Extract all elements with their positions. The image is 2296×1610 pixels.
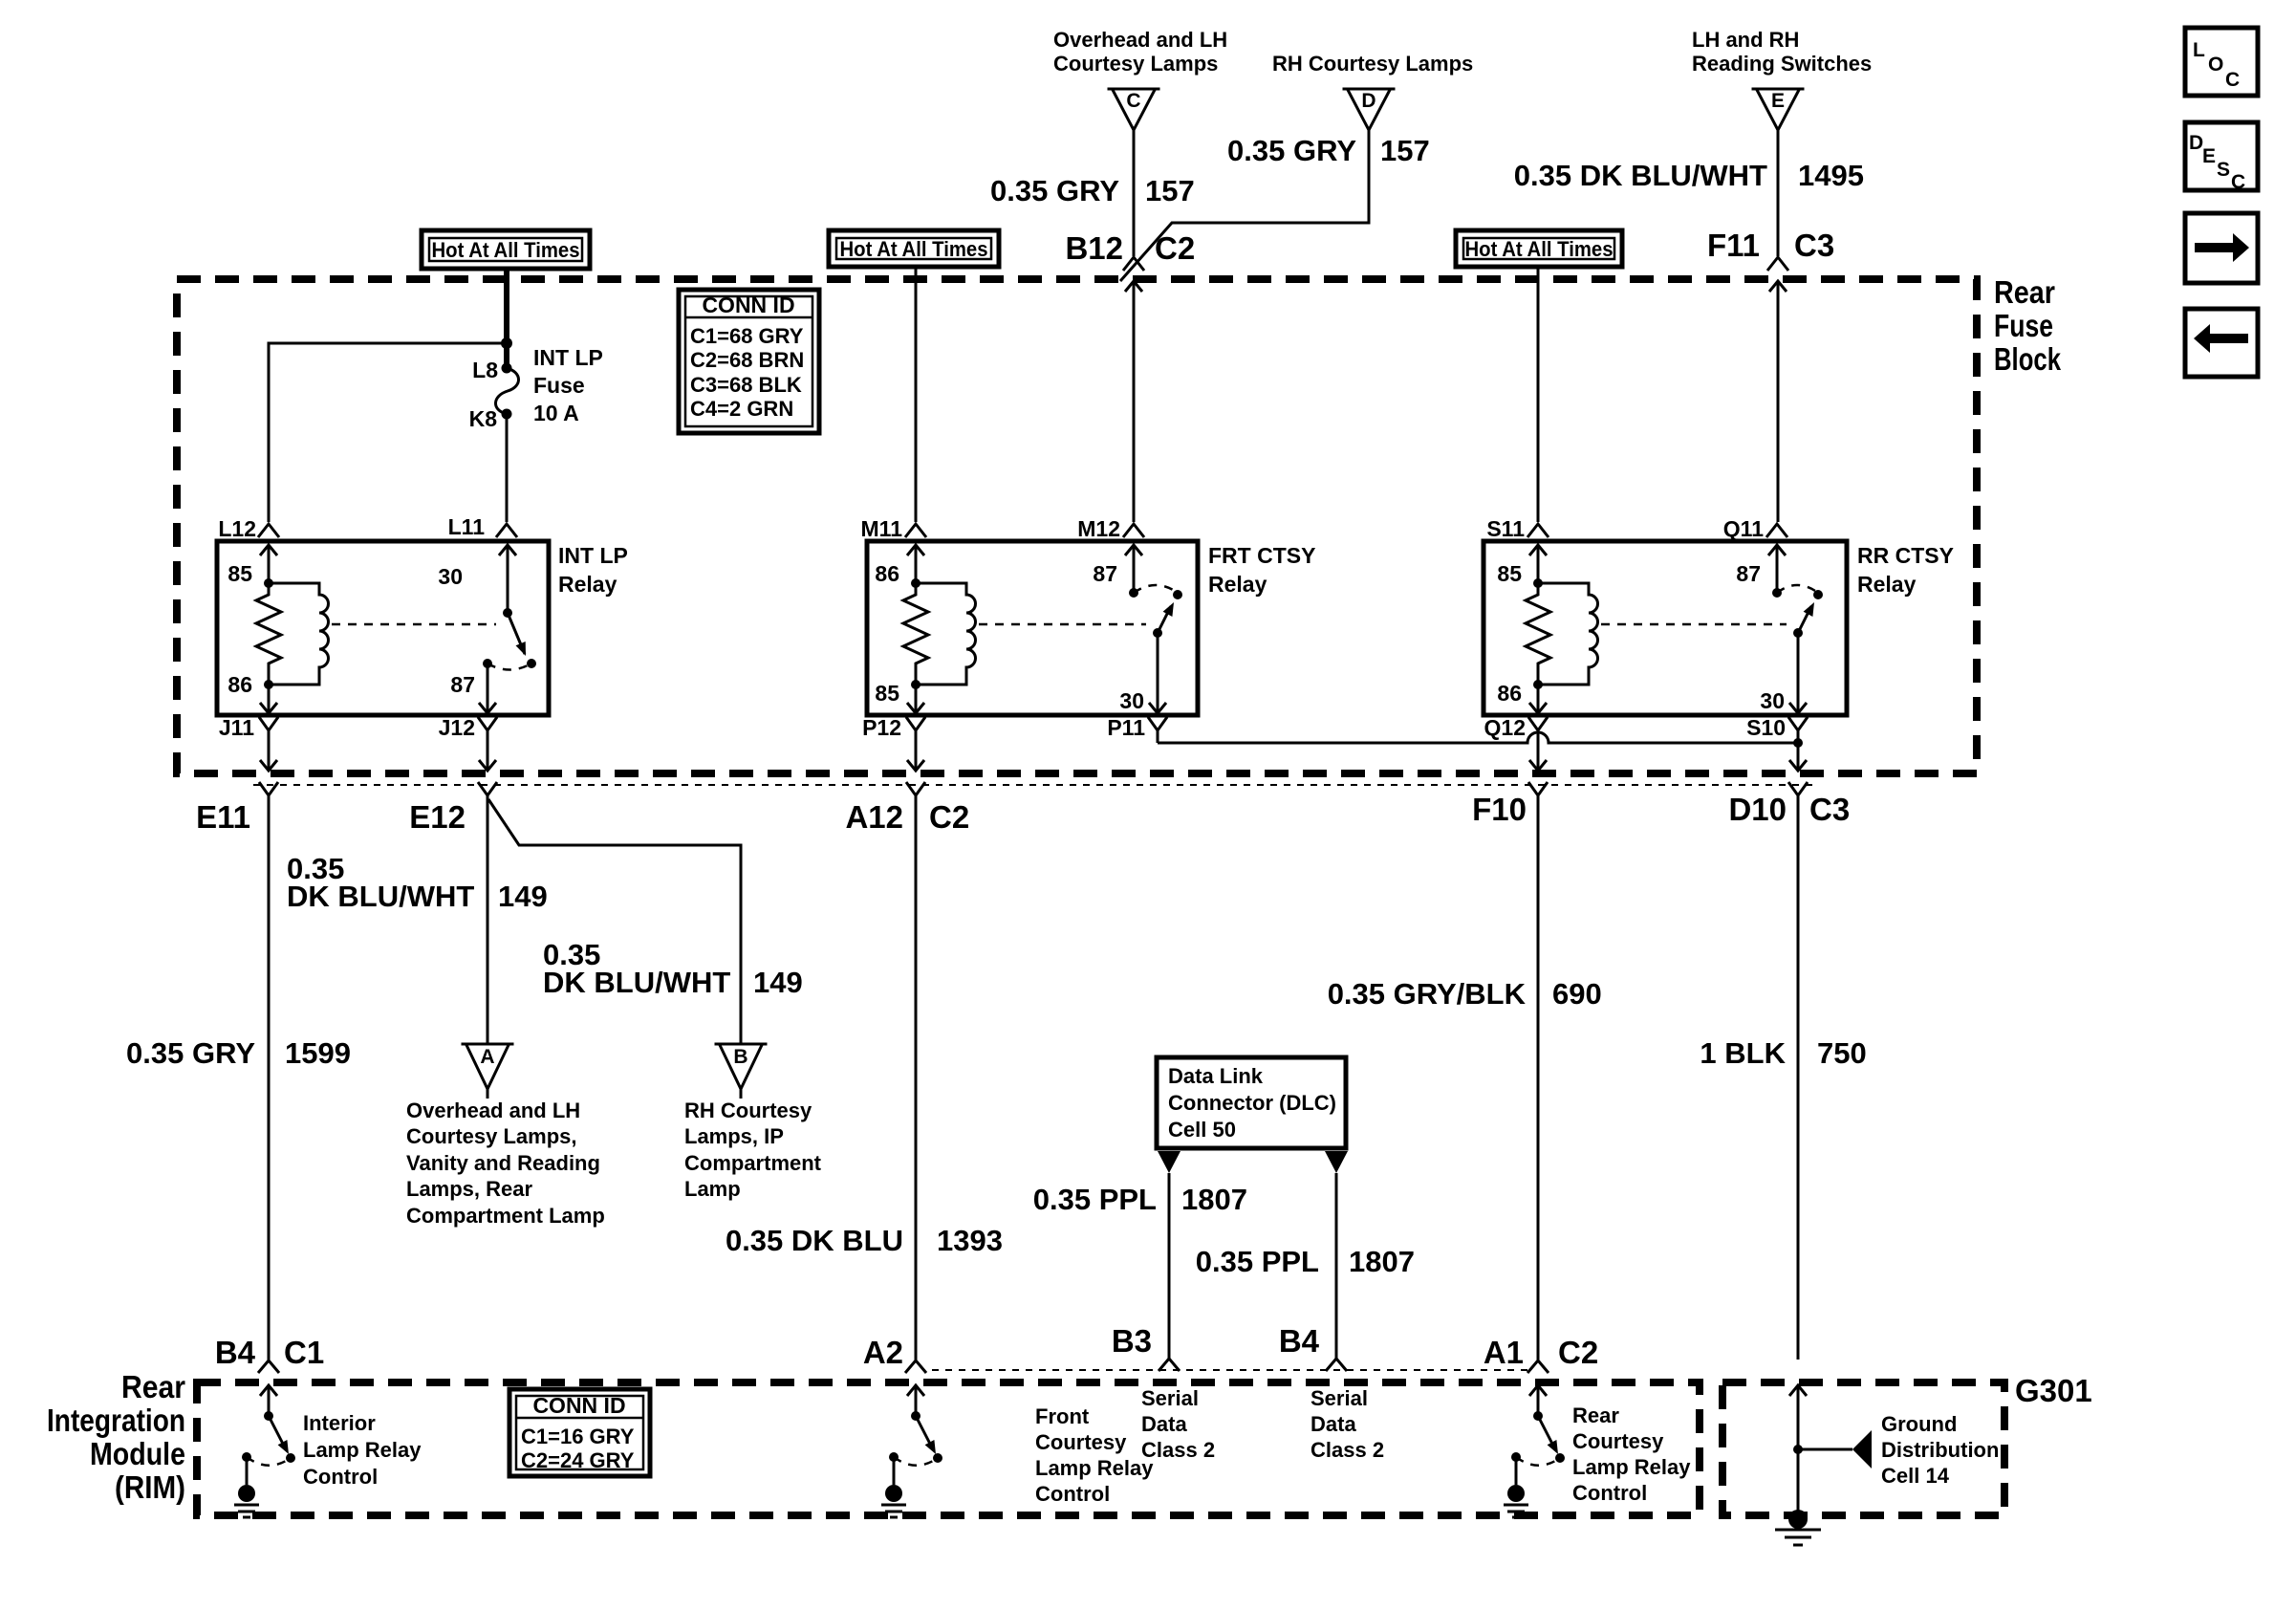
svg-text:Relay: Relay: [1857, 572, 1917, 597]
svg-text:(RIM): (RIM): [115, 1469, 185, 1505]
svg-text:Integration: Integration: [47, 1403, 185, 1438]
svg-text:Serial: Serial: [1141, 1386, 1199, 1410]
U3 coil winding: [1538, 583, 1598, 685]
label 0.35 GRY 157 circuit C: [990, 174, 1195, 207]
label 0.35 DK BLU/WHT 149 circuit A: [287, 852, 548, 913]
svg-text:LH and RH: LH and RH: [1692, 28, 1799, 52]
svg-text:B4: B4: [1279, 1323, 1320, 1359]
svg-text:Reading Switches: Reading Switches: [1692, 52, 1872, 76]
svg-text:S: S: [2217, 159, 2230, 181]
svg-text:C: C: [1126, 90, 1140, 112]
svg-text:INT LP: INT LP: [558, 543, 628, 568]
wire E12 to triangle A: [487, 795, 489, 1044]
svg-text:INT LP: INT LP: [533, 345, 603, 370]
svg-text:Vanity and Reading: Vanity and Reading: [406, 1151, 600, 1175]
node D10 C3: [1728, 782, 1850, 827]
node A12 C2: [845, 782, 969, 835]
DLC pin B4 triangle: [1325, 1151, 1348, 1359]
U3 pin 87 terminal arrow: [1736, 545, 1786, 598]
svg-text:86: 86: [1497, 681, 1522, 706]
svg-text:157: 157: [1145, 174, 1195, 207]
svg-text:85: 85: [227, 561, 252, 586]
label 0.35 GRY 157 circuit D: [1227, 134, 1430, 167]
svg-text:DK BLU/WHT: DK BLU/WHT: [543, 966, 730, 999]
U3 actuation dashed link: [1601, 623, 1787, 626]
svg-text:10 A: 10 A: [533, 401, 579, 425]
svg-text:Lamp Relay: Lamp Relay: [303, 1438, 422, 1462]
svg-text:C3: C3: [1809, 792, 1850, 827]
svg-text:B12: B12: [1065, 230, 1123, 266]
node B4 DLC: [1279, 1323, 1347, 1371]
svg-text:Courtesy Lamps: Courtesy Lamps: [1053, 52, 1218, 76]
svg-text:C2=68 BRN: C2=68 BRN: [690, 348, 804, 372]
svg-text:1807: 1807: [1181, 1183, 1247, 1216]
svg-text:RR CTSY: RR CTSY: [1857, 543, 1954, 568]
svg-text:M11: M11: [861, 516, 903, 541]
svg-text:C1: C1: [284, 1335, 324, 1370]
svg-text:CONN ID: CONN ID: [532, 1393, 625, 1418]
triangle B description: [684, 1099, 822, 1201]
svg-text:Distribution: Distribution: [1881, 1438, 1999, 1462]
svg-text:Lamp Relay: Lamp Relay: [1572, 1455, 1691, 1479]
label Serial Data Class 2 (B4): [1310, 1386, 1384, 1462]
svg-text:D10: D10: [1728, 792, 1787, 827]
svg-text:Interior: Interior: [303, 1411, 376, 1435]
svg-text:L: L: [2193, 39, 2205, 61]
connector triangle E LH and RH Reading Switches: [1692, 28, 1872, 130]
wire branch to L12: [269, 343, 507, 522]
wire F10 to A1: [1537, 795, 1540, 1360]
svg-text:Compartment: Compartment: [684, 1151, 822, 1175]
svg-text:CONN ID: CONN ID: [702, 293, 794, 317]
svg-text:Overhead and LH: Overhead and LH: [406, 1099, 580, 1122]
svg-text:D: D: [2189, 132, 2203, 154]
svg-text:Lamp Relay: Lamp Relay: [1035, 1456, 1154, 1480]
svg-text:Data: Data: [1141, 1412, 1187, 1436]
svg-text:C1=16 GRY: C1=16 GRY: [521, 1425, 635, 1448]
wire triangle D to B12: [1120, 130, 1369, 281]
svg-text:30: 30: [1760, 688, 1785, 713]
svg-text:B: B: [733, 1046, 747, 1068]
connector triangle B: [715, 1044, 768, 1099]
node Q12: [1484, 715, 1548, 771]
svg-text:C2: C2: [1155, 230, 1195, 266]
svg-text:E: E: [2202, 145, 2216, 167]
svg-text:S10: S10: [1746, 715, 1786, 740]
svg-text:0.35 GRY: 0.35 GRY: [1227, 134, 1356, 167]
node P12: [862, 715, 925, 771]
svg-text:A12: A12: [845, 799, 903, 835]
svg-text:Serial: Serial: [1310, 1386, 1368, 1410]
node B4 C1: [215, 1335, 324, 1373]
svg-text:0.35 PPL: 0.35 PPL: [1033, 1183, 1157, 1216]
U1 pin 30 terminal arrow: [438, 545, 516, 618]
svg-text:Lamps, IP: Lamps, IP: [684, 1124, 784, 1148]
svg-text:C1=68 GRY: C1=68 GRY: [690, 324, 804, 348]
svg-text:Courtesy: Courtesy: [1572, 1429, 1664, 1453]
svg-text:Relay: Relay: [558, 572, 617, 597]
wire Hot2 feed to M11: [915, 267, 918, 522]
svg-text:1807: 1807: [1349, 1245, 1415, 1278]
svg-text:C4=2 GRN: C4=2 GRN: [690, 397, 793, 421]
svg-text:C: C: [2231, 171, 2245, 193]
svg-text:A2: A2: [863, 1335, 903, 1370]
U1 pin 87 contact: [450, 659, 531, 713]
U2 switch arm and contact: [1134, 585, 1182, 638]
svg-text:FRT CTSY: FRT CTSY: [1208, 543, 1315, 568]
svg-text:0.35 GRY: 0.35 GRY: [126, 1036, 255, 1070]
node J11: [219, 715, 278, 771]
node F10: [1472, 782, 1548, 827]
label 1 BLK 750: [1700, 1036, 1866, 1070]
svg-text:Lamp: Lamp: [684, 1177, 741, 1201]
svg-text:Rear: Rear: [1572, 1403, 1619, 1427]
node B12 C2: [1065, 230, 1195, 522]
label 0.35 DK BLU/WHT 149 circuit B: [543, 938, 803, 999]
node L11: [448, 514, 517, 539]
svg-text:L12: L12: [218, 516, 256, 541]
node A1 C2: [1484, 1335, 1598, 1373]
U3 switch arm and contact: [1777, 585, 1823, 638]
svg-text:K8: K8: [469, 406, 498, 431]
connector triangle C Overhead and LH Courtesy Lamps: [1053, 28, 1227, 130]
node M11: [861, 516, 926, 541]
svg-text:85: 85: [1497, 561, 1522, 586]
svg-text:RH Courtesy Lamps: RH Courtesy Lamps: [1272, 52, 1473, 76]
svg-text:149: 149: [498, 880, 548, 913]
svg-text:Overhead and LH: Overhead and LH: [1053, 28, 1227, 52]
svg-text:Ground: Ground: [1881, 1412, 1957, 1436]
svg-text:1393: 1393: [937, 1224, 1003, 1257]
node A2: [863, 1335, 926, 1373]
svg-text:Cell 14: Cell 14: [1881, 1464, 1950, 1488]
svg-text:1 BLK: 1 BLK: [1700, 1036, 1786, 1070]
svg-text:Data Link: Data Link: [1168, 1064, 1264, 1088]
svg-text:F11: F11: [1707, 228, 1760, 263]
svg-text:Control: Control: [1572, 1481, 1647, 1505]
svg-text:Courtesy: Courtesy: [1035, 1430, 1127, 1454]
svg-text:C2: C2: [929, 799, 969, 835]
svg-text:Hot At All Times: Hot At All Times: [1465, 237, 1614, 261]
svg-text:B4: B4: [215, 1335, 256, 1370]
U1 pin 85 terminal arrow: [227, 545, 277, 588]
DESC legend box: [2185, 122, 2258, 193]
connector triangle D RH Courtesy Lamps: [1272, 52, 1473, 130]
U2 pin 30 terminal arrow: [1119, 633, 1166, 713]
U2 pin 87 terminal arrow: [1093, 545, 1142, 598]
svg-text:1599: 1599: [285, 1036, 351, 1070]
svg-text:Front: Front: [1035, 1404, 1090, 1428]
svg-text:C3=68 BLK: C3=68 BLK: [690, 373, 802, 397]
svg-text:D: D: [1361, 90, 1375, 112]
svg-text:M12: M12: [1077, 516, 1120, 541]
svg-text:O: O: [2208, 54, 2223, 76]
node S10: [1746, 715, 1808, 771]
svg-text:Class 2: Class 2: [1310, 1438, 1384, 1462]
CONN ID table (RIM): [509, 1389, 650, 1476]
U1 pin 86 terminal arrow: [227, 672, 277, 713]
node Q11: [1723, 516, 1787, 541]
label 0.35 PPL 1807 circuit B4: [1196, 1245, 1415, 1278]
U2 coil winding: [916, 583, 976, 685]
svg-text:86: 86: [875, 561, 899, 586]
svg-text:C2: C2: [1558, 1335, 1598, 1370]
svg-text:0.35 DK BLU: 0.35 DK BLU: [726, 1224, 903, 1257]
svg-text:E12: E12: [409, 799, 466, 835]
svg-text:30: 30: [438, 564, 463, 589]
Hot At All Times box 2: [829, 230, 999, 267]
node E12: [409, 782, 497, 835]
Data Link Connector (DLC) box: [1157, 1057, 1346, 1148]
wire P11 to S10 jumper with hop over Q12: [1158, 730, 1803, 748]
svg-text:DK BLU/WHT: DK BLU/WHT: [287, 880, 474, 913]
svg-text:0.35 DK BLU/WHT: 0.35 DK BLU/WHT: [1514, 159, 1767, 192]
svg-text:Rear: Rear: [121, 1369, 185, 1404]
svg-text:Courtesy Lamps,: Courtesy Lamps,: [406, 1124, 577, 1148]
svg-text:Lamps, Rear: Lamps, Rear: [406, 1177, 532, 1201]
svg-text:C: C: [2225, 69, 2240, 91]
wire Hot3 feed to S11: [1537, 267, 1540, 522]
Hot At All Times box 1: [422, 230, 590, 269]
svg-text:B3: B3: [1112, 1323, 1152, 1359]
label 0.35 GRY 1599: [126, 1036, 351, 1070]
node F11 C3: [1707, 228, 1834, 522]
svg-text:157: 157: [1380, 134, 1430, 167]
node M12: [1077, 516, 1144, 541]
ground G301: [1775, 1385, 1999, 1545]
wire fuse to L11: [506, 414, 509, 522]
svg-text:P12: P12: [862, 715, 901, 740]
CONN ID table (fuse block): [679, 290, 819, 433]
svg-text:C3: C3: [1794, 228, 1834, 263]
svg-text:86: 86: [227, 672, 252, 697]
svg-text:L8: L8: [472, 358, 498, 382]
svg-text:A1: A1: [1484, 1335, 1524, 1370]
svg-text:149: 149: [753, 966, 803, 999]
svg-text:Data: Data: [1310, 1412, 1356, 1436]
node P11: [1107, 715, 1167, 740]
Hot At All Times box 3: [1456, 230, 1622, 267]
node L12: [218, 516, 279, 541]
RIM switch Q3 Rear Courtesy Lamp Relay Control: [1504, 1385, 1691, 1517]
wire E12 branch to triangle B: [488, 799, 741, 1044]
U2 pin 85 terminal arrow: [875, 680, 924, 713]
connector thin dashed line above RIM: [932, 1369, 1530, 1371]
svg-text:J12: J12: [439, 715, 475, 740]
svg-text:85: 85: [875, 681, 899, 706]
svg-text:Control: Control: [1035, 1482, 1110, 1506]
svg-text:1495: 1495: [1798, 159, 1864, 192]
right arrow legend box: [2185, 213, 2258, 283]
node S11: [1486, 516, 1549, 541]
svg-text:Compartment Lamp: Compartment Lamp: [406, 1204, 605, 1228]
svg-text:Relay: Relay: [1208, 572, 1267, 597]
node E11: [196, 782, 278, 835]
svg-text:Hot At All Times: Hot At All Times: [840, 237, 988, 261]
svg-text:Fuse: Fuse: [533, 373, 585, 398]
U3 pin 85 terminal arrow: [1497, 545, 1547, 588]
U1 switch arm: [508, 613, 536, 668]
relay U3 RR CTSY Relay box: [1484, 541, 1954, 715]
U2 coil resistor: [903, 583, 928, 685]
svg-text:0.35 PPL: 0.35 PPL: [1196, 1245, 1319, 1278]
svg-text:G301: G301: [2015, 1373, 2092, 1408]
svg-text:Control: Control: [303, 1465, 378, 1489]
svg-text:750: 750: [1817, 1036, 1867, 1070]
Rear Integration Module (RIM) dashed boundary: [47, 1369, 1700, 1515]
U3 pin 86 terminal arrow: [1497, 680, 1547, 713]
G301 ground distribution dashed boundary: [1722, 1373, 2092, 1515]
svg-text:Q11: Q11: [1723, 516, 1764, 541]
svg-text:Connector (DLC): Connector (DLC): [1168, 1091, 1336, 1115]
connector C2 thin dashed line below fuse block: [253, 784, 1816, 786]
RIM switch Q2 Front Courtesy Lamp Relay Control: [881, 1385, 1154, 1517]
svg-text:87: 87: [1093, 561, 1117, 586]
svg-text:690: 690: [1552, 977, 1602, 1011]
U1 actuation dashed link: [332, 623, 496, 626]
label 0.35 GRY/BLK 690: [1328, 977, 1602, 1011]
svg-text:A: A: [480, 1046, 494, 1068]
svg-text:RH Courtesy: RH Courtesy: [684, 1099, 812, 1122]
wire A12 to A2: [915, 795, 918, 1360]
LOC legend box: [2185, 28, 2258, 96]
relay U2 FRT CTSY Relay box: [867, 541, 1315, 715]
svg-text:L11: L11: [448, 514, 486, 539]
wire D10 to G301: [1797, 795, 1800, 1360]
U3 pin 30 terminal arrow: [1760, 633, 1807, 713]
svg-text:30: 30: [1119, 688, 1144, 713]
U2 pin 86 terminal arrow: [875, 545, 924, 588]
label 0.35 DK BLU 1393: [726, 1224, 1003, 1257]
wire Hot1 feed: [501, 269, 512, 368]
node J12: [439, 715, 497, 771]
svg-text:87: 87: [450, 672, 475, 697]
node B3: [1112, 1323, 1180, 1371]
left arrow legend box: [2185, 309, 2258, 377]
svg-text:0.35 GRY/BLK: 0.35 GRY/BLK: [1328, 977, 1527, 1011]
label 0.35 DK BLU/WHT 1495: [1514, 159, 1864, 192]
svg-text:Q12: Q12: [1484, 715, 1526, 740]
U1 coil winding: [269, 583, 329, 685]
svg-text:87: 87: [1736, 561, 1761, 586]
svg-text:F10: F10: [1472, 792, 1527, 827]
relay U1 INT LP Relay box: [217, 541, 628, 715]
svg-text:S11: S11: [1486, 516, 1525, 541]
fuse F1 INT LP Fuse 10 A: [469, 345, 603, 431]
svg-text:Fuse: Fuse: [1994, 308, 2053, 343]
DLC pin B3 triangle: [1158, 1151, 1180, 1359]
svg-text:P11: P11: [1107, 715, 1145, 740]
Rear Fuse Block dashed boundary: [177, 274, 2061, 773]
svg-text:E: E: [1771, 90, 1785, 112]
svg-text:Hot At All Times: Hot At All Times: [432, 238, 580, 262]
svg-text:0.35 GRY: 0.35 GRY: [990, 174, 1119, 207]
svg-text:C2=24 GRY: C2=24 GRY: [521, 1448, 635, 1472]
svg-text:E11: E11: [196, 799, 250, 835]
wire E11 to B4: [268, 795, 271, 1360]
U2 actuation dashed link: [979, 623, 1146, 626]
U1 coil resistor: [256, 583, 281, 685]
svg-text:Block: Block: [1994, 341, 2061, 377]
wire triangle E to F11: [1777, 130, 1780, 256]
svg-text:Rear: Rear: [1994, 274, 2055, 310]
wire triangle C to B12: [1133, 130, 1136, 256]
RIM switch Q1 Interior Lamp Relay Control: [234, 1385, 422, 1517]
svg-text:J11: J11: [219, 715, 254, 740]
label 0.35 PPL 1807 circuit B3: [1033, 1183, 1247, 1216]
triangle A description: [406, 1099, 605, 1228]
svg-text:Module: Module: [90, 1436, 185, 1471]
label Serial Data Class 2 (B3): [1141, 1386, 1215, 1462]
svg-text:Cell 50: Cell 50: [1168, 1118, 1236, 1142]
connector triangle A: [462, 1044, 514, 1099]
U3 coil resistor: [1526, 583, 1550, 685]
